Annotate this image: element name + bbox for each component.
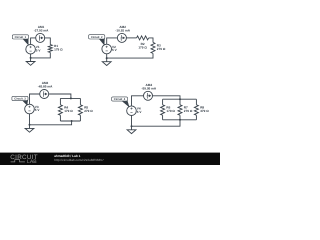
svg-text:279 Ω: 279 Ω [184,109,193,113]
wire AM4 to parallel rails [153,96,180,99]
ground [102,58,111,65]
voltage source V4 [127,106,137,116]
wire AM3 to parallel rails [49,94,71,98]
label V2 value [112,45,118,52]
label V4 value [137,107,143,114]
ammeter AM3 [40,90,49,99]
junction [29,124,31,126]
CircuitLab logo [10,154,38,165]
footer bar [0,153,220,165]
svg-text:179 Ω: 179 Ω [54,48,63,52]
wire [179,115,181,120]
wire [106,54,108,59]
svg-text:179 Ω: 179 Ω [138,46,147,50]
wire bottom rail c4 [163,119,197,121]
label R1 value [54,44,63,51]
wire R1 bottom to V1 bottom [31,53,51,58]
wire [195,99,197,105]
label R5 value [84,106,93,113]
wire return c4 [132,120,181,126]
wire top rail c3 [60,97,80,99]
wire [79,115,81,121]
voltage source V2 [102,44,112,54]
label R3 value [157,44,166,51]
node flag Circuit_4 [112,97,130,107]
svg-text:-10.92 mA: -10.92 mA [115,29,130,33]
svg-text:-59.05 mA: -59.05 mA [141,86,156,90]
junction [179,119,181,121]
svg-text:Circuit_4: Circuit_4 [114,98,126,101]
node flag Circuit_2 [89,35,105,45]
wire [30,54,32,58]
svg-text:Circuit_3: Circuit_3 [14,98,26,101]
resistor R4 [58,105,62,115]
resistor R3 [151,42,155,53]
ground [127,126,136,133]
svg-text:279 Ω: 279 Ω [157,47,166,51]
svg-text:279 Ω: 279 Ω [84,109,93,113]
label V1 value [36,45,42,52]
wire AM1 to R1 [44,38,50,45]
voltage source V1 [26,44,36,54]
wire [195,115,197,120]
ground [26,58,35,65]
junction [131,125,133,127]
ammeter AM1 [36,33,45,42]
wire [59,98,61,104]
label AM3 value [38,81,53,89]
label R6 value [166,106,175,113]
svg-text:179 Ω: 179 Ω [64,109,73,113]
wire R2 to R3 [149,38,153,43]
wire [127,37,137,39]
svg-text:LAB: LAB [27,159,37,165]
junction [30,57,32,59]
label R2 value [138,42,147,49]
label V3 value [35,105,41,112]
resistor R5 [78,105,82,115]
junction [179,98,181,100]
ammeter AM4 [144,91,153,100]
svg-text:Circuit_1: Circuit_1 [15,36,27,39]
svg-text:179 Ω: 179 Ω [166,109,175,113]
wire [162,115,164,120]
wire V2 top riser [107,38,118,45]
wire [131,116,133,127]
resistor R6 [161,105,165,115]
wire [162,99,164,105]
wire top rail c4 [163,98,197,100]
node flag Circuit_3 [12,96,28,105]
label R4 value [64,106,73,113]
junction [106,57,108,59]
ammeter AM2 [117,33,126,42]
svg-text:379 Ω: 379 Ω [200,109,209,113]
voltage source V3 [25,104,35,114]
svg-text:Circuit_2: Circuit_2 [91,36,103,39]
wire V3 top riser [30,94,40,104]
wire return c3 [30,121,72,125]
wire [59,115,61,121]
label AM2 value [115,25,130,33]
node flag Circuit_1 [12,35,28,45]
svg-text:-27.93 mA: -27.93 mA [34,29,49,33]
wire R3 bottom to V2 bottom [107,53,153,58]
label AM1 value [34,25,49,33]
resistor R8 [194,105,198,115]
wire V1 top riser [31,38,36,45]
resistor R1 [48,45,52,53]
junction [71,120,73,122]
label R8 value [200,106,209,113]
svg-text:http://circuitlab.com/c2s3u86f: http://circuitlab.com/c2s3u86f96657 [54,158,104,162]
wire bottom rail c3 [60,120,80,122]
wire V4 top riser [132,96,144,106]
wire [79,98,81,104]
label AM4 value [141,83,156,91]
ground [25,125,34,132]
resistor R7 [178,105,182,115]
resistor R2 [137,36,149,40]
junction [70,97,72,99]
svg-text:-45.85 mA: -45.85 mA [38,85,53,89]
wire [179,99,181,105]
label R7 value [184,106,193,113]
wire [29,114,31,125]
